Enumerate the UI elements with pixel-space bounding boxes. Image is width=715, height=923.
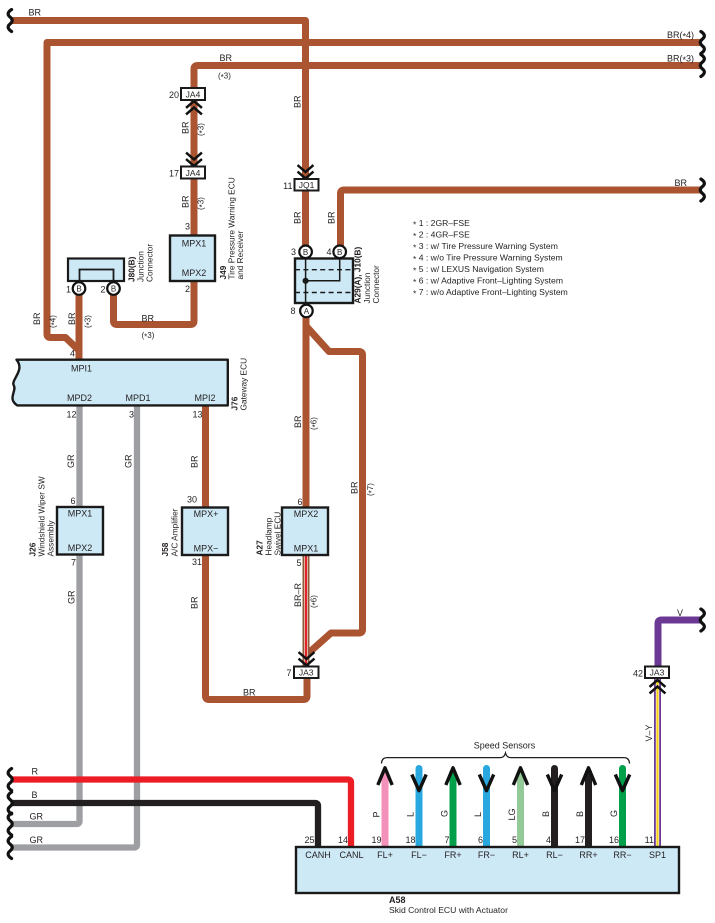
svg-text:B: B bbox=[575, 811, 585, 817]
break V right bbox=[700, 609, 704, 631]
svg-text:B: B bbox=[541, 811, 551, 817]
svg-text:MPX1: MPX1 bbox=[182, 239, 207, 249]
ECU J26 Windshield Wiper SW Assembly bbox=[28, 476, 104, 567]
svg-text:MPX2: MPX2 bbox=[68, 543, 93, 553]
svg-text:MPX+: MPX+ bbox=[194, 509, 219, 519]
svg-text:7: 7 bbox=[286, 668, 291, 678]
svg-text:31: 31 bbox=[192, 557, 202, 567]
svg-text:2: 2 bbox=[100, 285, 105, 295]
svg-text:L: L bbox=[473, 812, 483, 817]
svg-text:BR: BR bbox=[29, 8, 42, 18]
wire B CANH bbox=[12, 803, 318, 847]
svg-text:5: 5 bbox=[296, 558, 301, 568]
ECU J49 Tire Pressure Warning ECU and Receiver bbox=[170, 177, 245, 294]
svg-text:CANH: CANH bbox=[305, 850, 331, 860]
svg-text:A29(A), J10(B): A29(A), J10(B) bbox=[353, 247, 363, 304]
ECU A58 Skid Control ECU with Actuator bbox=[296, 847, 679, 915]
svg-text:(*3): (*3) bbox=[218, 72, 231, 83]
dashed internals bbox=[295, 270, 353, 293]
svg-text:GR: GR bbox=[30, 812, 44, 822]
svg-text:JQ1: JQ1 bbox=[299, 180, 315, 190]
wire V-Y striped JA3(42) -> SP1 bbox=[654, 679, 661, 848]
svg-text:MPD2: MPD2 bbox=[67, 393, 92, 403]
svg-text:(*7): (*7) bbox=[366, 483, 377, 496]
wire BR bus4 -> A29 pin4 bbox=[341, 190, 702, 246]
svg-text:RR−: RR− bbox=[613, 850, 631, 860]
svg-text:BR: BR bbox=[220, 53, 233, 63]
wire BR JA4(17) -> J49 pin3 bbox=[191, 178, 198, 236]
break GR2 left bbox=[8, 837, 12, 859]
svg-text:G: G bbox=[440, 810, 450, 817]
junction connector J80(B) bbox=[66, 243, 155, 294]
terminal 8 A bbox=[300, 305, 313, 318]
arrow up FL+ bbox=[378, 768, 392, 785]
wire BR (*7) branch bbox=[306, 326, 363, 654]
relay block JA4 pin20 bbox=[169, 88, 205, 100]
break BR(*4) right bbox=[700, 32, 704, 54]
svg-text:13: 13 bbox=[192, 410, 202, 420]
wire BR MPI2 pin13 -> J58 pin30 bbox=[202, 407, 209, 508]
svg-text:(*6): (*6) bbox=[310, 595, 321, 608]
svg-text:RR+: RR+ bbox=[579, 850, 597, 860]
svg-text:Speed Sensors: Speed Sensors bbox=[474, 741, 536, 751]
svg-text:B: B bbox=[76, 285, 81, 294]
svg-text:(*3): (*3) bbox=[197, 123, 208, 136]
svg-text:7: 7 bbox=[444, 835, 449, 845]
svg-text:(*3): (*3) bbox=[197, 197, 208, 210]
svg-text:6: 6 bbox=[70, 496, 75, 506]
svg-text:3: 3 bbox=[291, 247, 296, 257]
svg-text:Swivel ECU: Swivel ECU bbox=[273, 512, 283, 556]
chevron into JA4(17) pointing down bbox=[187, 153, 201, 166]
wire BR J49 pin2 -> J80 pin2 bbox=[114, 281, 195, 325]
svg-text:B: B bbox=[303, 248, 308, 257]
svg-text:JA4: JA4 bbox=[186, 168, 201, 178]
terminal 2 B bbox=[107, 282, 120, 295]
arrow down RR- bbox=[615, 775, 629, 791]
svg-text:Connector: Connector bbox=[371, 265, 381, 304]
svg-text:14: 14 bbox=[338, 835, 348, 845]
svg-text:LG: LG bbox=[507, 808, 517, 820]
svg-text:4: 4 bbox=[326, 247, 331, 257]
speed sensor wire RR+ B bbox=[585, 771, 592, 847]
wire GR MPD2->J26 pin6 bbox=[76, 407, 82, 508]
wire BR J58 pin31 -> JA3 pin7 bbox=[206, 555, 308, 700]
svg-text:G: G bbox=[609, 810, 619, 817]
wire BR J80 pin1 -> J76 pin4 bbox=[76, 295, 83, 359]
svg-text:CANL: CANL bbox=[339, 850, 363, 860]
arrow up RL+ bbox=[513, 768, 527, 785]
svg-text:RL+: RL+ bbox=[512, 850, 529, 860]
svg-text:MPX2: MPX2 bbox=[294, 509, 319, 519]
svg-text:* 3 : w/ Tire Pressure Warning: * 3 : w/ Tire Pressure Warning System bbox=[413, 241, 558, 253]
svg-text:MPX−: MPX− bbox=[194, 544, 219, 554]
svg-text:* 4 : w/o Tire Pressure Warnin: * 4 : w/o Tire Pressure Warning System bbox=[413, 253, 563, 265]
internal wiring bbox=[306, 259, 340, 305]
svg-text:GR: GR bbox=[66, 454, 76, 468]
svg-text:12: 12 bbox=[66, 410, 76, 420]
svg-text:25: 25 bbox=[304, 835, 314, 845]
arrow up FR+ bbox=[446, 768, 460, 785]
svg-text:6: 6 bbox=[297, 497, 302, 507]
svg-text:17: 17 bbox=[169, 169, 179, 179]
junction dot bbox=[303, 278, 309, 284]
svg-text:BR: BR bbox=[674, 178, 687, 188]
wire BR bus2 (*4) bbox=[47, 43, 701, 351]
svg-text:11: 11 bbox=[645, 835, 654, 845]
wire V violet bbox=[658, 620, 701, 667]
svg-text:BR: BR bbox=[293, 211, 303, 224]
svg-text:30: 30 bbox=[187, 495, 197, 505]
svg-text:GR: GR bbox=[67, 590, 77, 604]
svg-text:* 6 : w/ Adaptive Front–Lighti: * 6 : w/ Adaptive Front–Lighting System bbox=[413, 276, 563, 288]
ECU A27 Headlamp Swivel ECU bbox=[255, 497, 329, 568]
svg-text:MPI2: MPI2 bbox=[195, 393, 216, 403]
wire GR J26 pin7 -> left edge bbox=[12, 555, 80, 824]
svg-text:V: V bbox=[677, 608, 683, 618]
svg-text:Connector: Connector bbox=[145, 243, 155, 282]
svg-text:MPX1: MPX1 bbox=[68, 509, 93, 519]
svg-text:L: L bbox=[406, 812, 416, 817]
wire BR bus1 top bbox=[12, 21, 306, 246]
ECU J76 Gateway ECU bbox=[12, 349, 248, 420]
svg-text:RL−: RL− bbox=[546, 850, 563, 860]
svg-text:BR: BR bbox=[327, 211, 337, 224]
svg-text:JA4: JA4 bbox=[186, 90, 201, 100]
speed sensor wire RR- G bbox=[619, 769, 626, 848]
A58 pin numbers bbox=[304, 835, 654, 845]
terminal 4 B bbox=[333, 246, 346, 259]
chevron into JA3(7) pointing down bbox=[300, 653, 314, 666]
break R left bbox=[8, 769, 12, 791]
svg-text:A58: A58 bbox=[389, 895, 406, 905]
speed sensor wire FR+ G bbox=[450, 771, 457, 847]
junction connector A29(A), J10(B) bbox=[290, 246, 381, 318]
speed sensor wire FL- L bbox=[416, 769, 423, 848]
speed sensor wire FR- L bbox=[483, 769, 490, 848]
svg-text:BR: BR bbox=[293, 415, 303, 428]
svg-text:(*6): (*6) bbox=[310, 417, 321, 430]
svg-text:A: A bbox=[304, 307, 310, 316]
svg-text:BR: BR bbox=[32, 312, 42, 325]
svg-text:FR+: FR+ bbox=[444, 850, 461, 860]
svg-text:BR: BR bbox=[181, 195, 191, 208]
svg-text:MPD1: MPD1 bbox=[126, 393, 151, 403]
rotated wire labels bbox=[32, 95, 654, 821]
svg-text:20: 20 bbox=[169, 90, 179, 100]
svg-text:* 1 : 2GR–FSE: * 1 : 2GR–FSE bbox=[413, 218, 470, 230]
speed sensor wire FL+ P bbox=[382, 771, 389, 847]
arrow down RL- bbox=[547, 775, 561, 791]
svg-text:MPX1: MPX1 bbox=[294, 544, 319, 554]
svg-text:* 5 : w/ LEXUS Navigation Syst: * 5 : w/ LEXUS Navigation System bbox=[413, 264, 544, 276]
wire R CANL bbox=[12, 780, 351, 848]
svg-text:BR: BR bbox=[350, 481, 360, 494]
arrow down FR- bbox=[479, 775, 493, 791]
wire BR-R striped A27 pin5 -> JA3 bbox=[303, 555, 310, 666]
svg-text:(*3): (*3) bbox=[84, 315, 95, 328]
chevron into JA3(42) pointing up bbox=[651, 680, 665, 693]
wire BR bus3 (*3) bbox=[194, 66, 701, 89]
svg-text:BR: BR bbox=[67, 312, 77, 325]
break GR1 left bbox=[8, 813, 12, 835]
svg-text:17: 17 bbox=[575, 835, 585, 845]
svg-text:BR: BR bbox=[243, 688, 256, 698]
svg-text:19: 19 bbox=[371, 835, 381, 845]
svg-text:8: 8 bbox=[290, 306, 295, 316]
svg-text:MPX2: MPX2 bbox=[182, 268, 207, 278]
wire BR A29 pin8 -> A27 pin6 bbox=[303, 317, 310, 507]
break BR bus1 left bbox=[8, 10, 12, 32]
svg-text:J58: J58 bbox=[160, 542, 170, 556]
terminal 3 B bbox=[299, 246, 312, 259]
svg-text:B: B bbox=[337, 248, 342, 257]
arrow down FL- bbox=[412, 775, 426, 791]
svg-text:3: 3 bbox=[185, 222, 190, 232]
svg-text:BR: BR bbox=[293, 95, 303, 108]
svg-text:V–Y: V–Y bbox=[644, 724, 654, 741]
svg-text:R: R bbox=[32, 767, 39, 777]
svg-text:11: 11 bbox=[283, 181, 292, 191]
svg-text:42: 42 bbox=[633, 669, 643, 679]
speed sensor wire RL- B bbox=[551, 769, 558, 848]
speed sensor wire RL+ LG bbox=[517, 771, 524, 847]
chevron into JQ1 pointing down bbox=[299, 166, 313, 179]
svg-text:GR: GR bbox=[30, 835, 44, 845]
wire GR MPD1 pin3 -> left edge bbox=[12, 407, 137, 848]
svg-text:and Receiver: and Receiver bbox=[235, 230, 245, 279]
speed sensors brace bbox=[382, 753, 630, 764]
svg-text:1: 1 bbox=[66, 285, 71, 295]
relay block JA3 pin7 bbox=[286, 667, 318, 679]
svg-text:P: P bbox=[372, 811, 382, 817]
svg-text:BR–R: BR–R bbox=[293, 582, 303, 607]
svg-text:BR: BR bbox=[181, 121, 191, 134]
svg-text:4: 4 bbox=[70, 349, 75, 359]
break BR bus4 right bbox=[700, 179, 704, 201]
svg-text:JA3: JA3 bbox=[650, 668, 665, 678]
svg-text:16: 16 bbox=[609, 835, 619, 845]
relay block JA3 pin42 bbox=[633, 667, 669, 679]
svg-text:FL+: FL+ bbox=[377, 850, 393, 860]
svg-text:FL−: FL− bbox=[411, 850, 427, 860]
svg-text:B: B bbox=[111, 285, 116, 294]
svg-text:(*4): (*4) bbox=[49, 315, 60, 328]
svg-text:B: B bbox=[32, 790, 38, 800]
break BR(*3) right bbox=[700, 55, 704, 77]
break B left bbox=[8, 792, 12, 814]
svg-text:* 2 : 4GR–FSE: * 2 : 4GR–FSE bbox=[413, 230, 470, 242]
svg-text:BR(*3): BR(*3) bbox=[667, 54, 694, 66]
svg-text:BR: BR bbox=[190, 596, 200, 609]
svg-text:A/C Amplifier: A/C Amplifier bbox=[170, 508, 180, 556]
svg-text:JA3: JA3 bbox=[299, 668, 314, 678]
arrow up RR+ bbox=[581, 768, 595, 785]
svg-text:BR: BR bbox=[142, 314, 155, 324]
svg-text:Skid Control ECU with Actuator: Skid Control ECU with Actuator bbox=[389, 905, 508, 915]
svg-text:SP1: SP1 bbox=[649, 850, 666, 860]
ECU J58 A/C Amplifier bbox=[160, 495, 228, 568]
svg-text:3: 3 bbox=[129, 410, 134, 420]
svg-text:GR: GR bbox=[124, 454, 134, 468]
svg-text:7: 7 bbox=[71, 558, 76, 568]
svg-text:18: 18 bbox=[405, 835, 415, 845]
svg-text:BR(*4): BR(*4) bbox=[667, 30, 694, 42]
svg-text:Assembly: Assembly bbox=[46, 520, 56, 557]
svg-text:(*3): (*3) bbox=[142, 331, 155, 342]
wire BR between JA4 boxes bbox=[191, 100, 198, 168]
relay block JQ1 pin11 bbox=[283, 179, 318, 191]
svg-text:* 7 : w/o Adaptive Front–Light: * 7 : w/o Adaptive Front–Lighting System bbox=[413, 287, 568, 299]
svg-text:FR−: FR− bbox=[478, 850, 495, 860]
svg-text:2: 2 bbox=[185, 284, 190, 294]
svg-text:6: 6 bbox=[478, 835, 483, 845]
relay block JA4 pin17 bbox=[169, 167, 205, 179]
chevron into JA4(20) pointing up bbox=[187, 101, 201, 114]
svg-text:5: 5 bbox=[512, 835, 517, 845]
svg-text:Gateway ECU: Gateway ECU bbox=[239, 358, 249, 411]
svg-text:BR: BR bbox=[190, 455, 200, 468]
svg-text:4: 4 bbox=[546, 835, 551, 845]
svg-text:MPI1: MPI1 bbox=[71, 364, 92, 374]
terminal 1 B bbox=[73, 282, 86, 295]
